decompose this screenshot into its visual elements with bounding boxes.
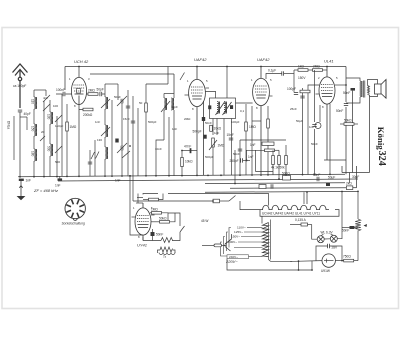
svg-text:50kΩ: 50kΩ: [344, 119, 352, 123]
voltage selector comb: [263, 223, 269, 257]
capacitor 1nF box: [262, 142, 274, 145]
wire grid out: [294, 70, 346, 175]
svg-text:50nF: 50nF: [114, 95, 121, 99]
wire dropper: [357, 191, 359, 260]
resistor 2MΩ tube1 right: [87, 93, 89, 95]
switch blade: [222, 244, 226, 246]
resistor 10kΩ: [181, 158, 184, 167]
svg-text:150V: 150V: [298, 76, 306, 80]
oscillator arrow: [161, 101, 170, 112]
dial lamp 1: [317, 236, 324, 243]
band switch contacts: [40, 95, 99, 159]
svg-text:50nF: 50nF: [205, 121, 212, 125]
switch at mixer: [180, 73, 185, 81]
svg-text:50nF: 50nF: [343, 91, 350, 95]
svg-text:500pF: 500pF: [148, 120, 157, 124]
IF2 coil b: [224, 102, 227, 114]
wire speaker return: [369, 95, 371, 173]
wire bus B4b: [353, 187, 357, 189]
svg-text:50nF: 50nF: [311, 142, 318, 146]
svg-text:ca 100pF: ca 100pF: [13, 84, 26, 88]
svg-text:100: 100: [53, 104, 58, 108]
resistor trio 2: [278, 156, 281, 165]
svg-text:110pF: 110pF: [55, 124, 63, 128]
wire trio: [240, 106, 286, 179]
wire IF2: [205, 67, 253, 184]
svg-text:1nF: 1nF: [95, 120, 100, 124]
svg-text:UY41: UY41: [137, 243, 147, 248]
svg-text:125V~: 125V~: [234, 230, 243, 234]
svg-text:150: 150: [31, 126, 35, 132]
resistor 1MΩ: [66, 122, 69, 131]
wire antenna down: [19, 112, 21, 177]
electrolytic near speaker: [351, 88, 356, 91]
svg-text:1nF: 1nF: [26, 179, 32, 183]
svg-text:100nF: 100nF: [56, 88, 65, 92]
speaker: [375, 80, 387, 99]
svg-text:50nF: 50nF: [233, 152, 240, 156]
wire bus H2: [90, 73, 174, 75]
svg-text:110: 110: [31, 99, 35, 104]
svg-text:20: 20: [41, 130, 45, 134]
wire tube3 stub: [252, 120, 261, 122]
svg-text:0,135 A: 0,135 A: [295, 218, 307, 222]
svg-text:1nF: 1nF: [250, 143, 256, 147]
svg-text:15nF: 15nF: [123, 117, 130, 121]
tube UAF42 second: [253, 67, 270, 176]
selector labels: [228, 226, 246, 259]
wire heater feed: [133, 196, 260, 210]
zigzag dropper resistor: [355, 219, 361, 231]
svg-text:UAF42: UAF42: [257, 57, 270, 62]
svg-text:50nF: 50nF: [342, 229, 349, 233]
wire tuning verticals: [105, 84, 138, 176]
oscillator coil a: [164, 98, 167, 110]
resistor 1MΩ det: [245, 122, 248, 131]
coil bank2 b: [50, 144, 53, 156]
svg-text:15nF: 15nF: [227, 133, 234, 137]
IF2 arrows: [216, 102, 225, 115]
svg-text:50pF: 50pF: [97, 88, 104, 92]
tube UY41: [135, 203, 151, 241]
capacitor 47nF: [182, 150, 197, 152]
wire misc left verticals: [14, 94, 95, 177]
tube UCH42: [71, 77, 86, 104]
svg-text:50μF: 50μF: [328, 176, 335, 180]
wire bus B6: [342, 172, 370, 174]
variable capacitor arrow 2: [117, 143, 127, 153]
svg-text:2kΩ: 2kΩ: [346, 182, 352, 186]
svg-text:0,1μF: 0,1μF: [268, 69, 276, 73]
svg-text:1nF: 1nF: [55, 184, 61, 188]
wire bus B3: [205, 182, 345, 185]
resistor small cath: [300, 90, 310, 93]
svg-text:324: 324: [376, 151, 387, 166]
svg-text:130: 130: [97, 138, 102, 142]
wire transformer: [346, 78, 378, 103]
svg-text:2MΩ: 2MΩ: [88, 89, 95, 93]
wire right drop from H1: [345, 67, 347, 103]
wire mains right: [316, 246, 358, 261]
svg-text:200kΩ: 200kΩ: [83, 113, 93, 117]
resistor 200kΩ below tube1: [79, 109, 83, 111]
small caps on verticals: [126, 106, 130, 108]
resistor 2MΩ out: [313, 69, 323, 72]
bus components right: [259, 185, 266, 189]
resistor zigzag 1: [161, 238, 173, 243]
resistor zigzag 2 / Tr winding: [160, 247, 173, 252]
wire mains bottom rails: [227, 234, 322, 270]
IF2 side caps: [208, 105, 211, 109]
capacitor 50nF blob: [151, 232, 155, 236]
capacitor 1nF bus2: [58, 178, 63, 180]
resistor diode load: [246, 149, 265, 151]
wire bus H3: [324, 159, 346, 161]
fuse: [214, 244, 222, 247]
capacitor blob 500pF: [203, 135, 206, 139]
svg-text:180: 180: [31, 151, 35, 157]
oscillator coil b: [171, 98, 174, 110]
svg-text:UCH 42: UCH 42: [74, 59, 89, 64]
IF2 coil a: [217, 102, 220, 114]
svg-text:2MΩ: 2MΩ: [184, 117, 191, 121]
svg-text:30μF: 30μF: [352, 175, 359, 179]
svg-text:50kΩ: 50kΩ: [159, 217, 167, 221]
capacitor 50nF right: [344, 104, 348, 106]
svg-text:110V~: 110V~: [237, 226, 246, 230]
capacitor blob osc: [115, 139, 118, 143]
wire H1 left drop: [65, 66, 79, 68]
svg-text:50nF: 50nF: [336, 109, 343, 113]
svg-text:10kΩ: 10kΩ: [185, 160, 193, 164]
resistor 50kΩ right: [344, 123, 354, 126]
svg-text:1nF: 1nF: [115, 179, 121, 183]
svg-text:2MΩ: 2MΩ: [313, 65, 320, 69]
svg-text:500pF: 500pF: [205, 155, 214, 159]
volume pot: [212, 138, 215, 147]
capacitor avc: [241, 158, 243, 162]
resistor 50kΩ fb: [160, 221, 170, 224]
dial lamp 2: [330, 235, 337, 242]
barretter circle: [322, 254, 335, 267]
trimmer arrow: [101, 99, 110, 136]
tube UL41: [319, 67, 335, 161]
IF coil bank3 c: [105, 147, 108, 159]
capacitor near lamps: [350, 226, 355, 229]
svg-text:1nF: 1nF: [309, 125, 314, 129]
svg-text:40pF: 40pF: [24, 112, 31, 116]
IF transformer 2 box: [210, 98, 236, 119]
capacitor 0,1μF coupling: [266, 74, 294, 80]
tube UAF42 first: [189, 67, 206, 176]
resistor 750Ω: [344, 259, 354, 262]
output transformer secondary: [368, 86, 370, 94]
capacitor 15nF det: [229, 138, 233, 140]
tube pin stubs: [132, 88, 320, 217]
svg-text:47nF: 47nF: [184, 145, 191, 149]
antenna coil L1: [34, 97, 37, 109]
IF coil bank3 a: [105, 97, 108, 109]
wire coil bank2: [46, 90, 50, 177]
wire bus B5: [205, 190, 358, 193]
svg-text:1MΩ: 1MΩ: [249, 125, 256, 129]
wire oscillator: [146, 84, 174, 176]
svg-text:DNLa: DNLa: [7, 121, 11, 129]
svg-text:10nF: 10nF: [155, 147, 162, 151]
capacitor 100nF at tube1 grid: [56, 93, 63, 95]
wire right verticals: [341, 166, 343, 173]
svg-text:UCH42 UAF42 UAF42 UL41 UY41 UY: UCH42 UAF42 UAF42 UL41 UY41 UY11: [262, 212, 320, 216]
capacitor 1nF to ground: [19, 179, 24, 181]
resistor 300kΩ: [267, 119, 270, 128]
svg-text:500: 500: [55, 160, 60, 164]
resistor below heater: [301, 223, 308, 226]
svg-text:1nF: 1nF: [214, 131, 219, 135]
svg-text:500: 500: [47, 146, 51, 152]
resistor 1kΩ: [298, 69, 308, 72]
svg-text:750Ω: 750Ω: [343, 255, 351, 259]
output transformer core: [362, 81, 364, 98]
trimmer arrow osc2: [122, 151, 130, 158]
wire coil bank3: [105, 84, 112, 176]
svg-text:U91W: U91W: [321, 269, 330, 273]
resistor loop top: [149, 198, 159, 201]
selector wiring: [221, 228, 263, 257]
svg-text:1nF: 1nF: [248, 155, 254, 159]
heater chain box: [260, 192, 339, 216]
svg-text:28V: 28V: [332, 246, 339, 250]
svg-text:10kΩ: 10kΩ: [214, 127, 222, 131]
svg-text:30pF: 30pF: [171, 105, 178, 109]
resistor 1MΩ fb: [152, 212, 162, 215]
wire top bus H1: [79, 67, 346, 78]
capacitor 50pF: [100, 92, 102, 96]
svg-text:1kΩ: 1kΩ: [298, 65, 304, 69]
phono circle: [315, 123, 321, 129]
svg-text:ZF = 468 kHz: ZF = 468 kHz: [33, 188, 58, 193]
wire tube1 cathode down: [78, 105, 80, 177]
dropper arrow: [364, 224, 368, 227]
svg-text:50μF: 50μF: [296, 119, 303, 123]
svg-text:500pF: 500pF: [193, 130, 202, 134]
resistor trio 3: [285, 156, 288, 165]
resistor 50kΩ osc: [145, 103, 148, 112]
svg-text:Sockelschaltung: Sockelschaltung: [62, 222, 85, 226]
capacitor blob g2: [202, 117, 205, 121]
svg-text:250pF: 250pF: [230, 159, 239, 163]
svg-text:130: 130: [47, 114, 51, 120]
svg-text:45 W: 45 W: [201, 219, 208, 223]
svg-text:4nF: 4nF: [43, 96, 48, 100]
svg-text:50nF: 50nF: [156, 233, 163, 237]
selector 240V box: [227, 255, 249, 259]
svg-text:König: König: [376, 127, 386, 151]
wire bus B1: [18, 174, 345, 177]
variable capacitor tuning 2: [121, 146, 123, 150]
svg-text:UAF42: UAF42: [194, 57, 207, 62]
wire lamp branch: [312, 192, 350, 240]
wire bus B2: [58, 179, 358, 181]
suppressor box: [213, 199, 220, 203]
svg-text:1nF: 1nF: [172, 127, 177, 131]
capacitor 28V: [328, 244, 330, 248]
ground: [19, 181, 22, 196]
variable capacitor arrow 1: [117, 96, 127, 106]
antenna coil L2: [34, 124, 37, 136]
wire coil bank1: [20, 90, 46, 177]
coil bank2 a: [50, 112, 53, 124]
IF coil bank3 b: [105, 125, 108, 137]
antenna coil L3: [34, 149, 37, 161]
tube socket pinout: [65, 198, 85, 220]
svg-text:UL41: UL41: [324, 58, 334, 63]
svg-text:WL 6,3V: WL 6,3V: [321, 231, 334, 235]
svg-text:50: 50: [139, 101, 143, 105]
value label sprinkle: [41, 95, 318, 164]
wire bus B4: [230, 187, 346, 190]
antenna: [13, 64, 28, 108]
svg-text:1MΩ: 1MΩ: [70, 125, 77, 129]
resistor 10kΩ screen: [210, 125, 213, 131]
capacitor 40pF: [18, 110, 22, 112]
svg-text:0,1: 0,1: [240, 109, 245, 113]
variable capacitor tuning 1: [121, 99, 123, 103]
resistor trio 1: [272, 156, 275, 165]
svg-text:100pF: 100pF: [287, 87, 296, 91]
capacitor 100pF: [294, 93, 298, 95]
svg-text:25nF: 25nF: [290, 107, 297, 111]
svg-text:100pF: 100pF: [231, 120, 240, 124]
wire avc area: [256, 150, 274, 171]
output transformer primary: [360, 81, 363, 97]
wire tube5 area: [130, 176, 269, 241]
wire right drop lower: [345, 107, 347, 174]
svg-text:150V~: 150V~: [231, 235, 240, 239]
